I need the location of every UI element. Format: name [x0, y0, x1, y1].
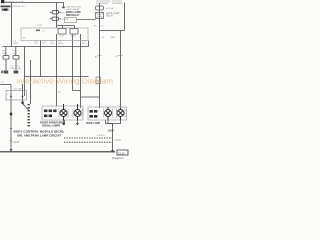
svg-text:Interactive Wiring Diagram: Interactive Wiring Diagram [16, 77, 113, 86]
fuse F4 [3, 56, 9, 60]
lamp L3 [105, 107, 112, 120]
switch S1 contacts [10, 96, 12, 98]
lamp bracket left [59, 109, 82, 118]
svg-text:GRY: GRY [17, 68, 22, 70]
svg-text:BLK: BLK [82, 43, 87, 45]
svg-text:UNDERHOOD FUSE: UNDERHOOD FUSE [5, 1, 25, 3]
wire [100, 30, 125, 32]
switch contact blob [21, 102, 23, 104]
relay body K4 [65, 18, 77, 23]
connector C2 [4, 71, 9, 74]
wire [0, 84, 11, 86]
connector stub blob [62, 7, 64, 9]
connector C4 [1, 71, 3, 74]
wire [56, 3, 58, 29]
connector C3 [14, 71, 19, 74]
lamp cluster left box [42, 106, 83, 120]
wire [24, 47, 26, 97]
dotted splice lines [64, 138, 112, 142]
svg-text:15A: 15A [13, 52, 17, 55]
svg-text:30 87: 30 87 [71, 36, 77, 38]
wire [80, 34, 82, 108]
svg-text:S112: S112 [37, 25, 43, 27]
svg-text:Diagram: Diagram [112, 156, 124, 160]
fuse F2 [52, 17, 59, 21]
svg-text:G201: G201 [115, 138, 122, 142]
wire lower bus [25, 76, 89, 78]
wire relay to coil [77, 19, 96, 21]
wire [22, 84, 24, 103]
ground G1 [62, 123, 65, 126]
svg-text:BRN: BRN [111, 37, 116, 39]
relay K2 [70, 29, 78, 35]
svg-text:RELAY: RELAY [106, 15, 114, 18]
wire right feed [124, 3, 126, 31]
connector diamond on BCM wire [9, 112, 12, 117]
wire [5, 47, 7, 70]
svg-text:ORN: ORN [10, 68, 15, 70]
svg-text:GRY: GRY [50, 43, 55, 45]
svg-text:C130: C130 [118, 151, 125, 155]
wire [40, 40, 42, 77]
fuse F5 [13, 56, 19, 60]
wire [30, 60, 32, 104]
wire [64, 120, 66, 125]
svg-text:10A: 10A [2, 52, 6, 55]
lamp cluster right box [88, 107, 127, 120]
relay coil K3 [96, 13, 104, 19]
svg-text:F8 15A: F8 15A [106, 7, 114, 10]
ground G2 [76, 123, 79, 126]
wire [88, 41, 90, 47]
ground tap G103 [10, 149, 13, 152]
wire lamp grounds [64, 120, 121, 126]
wire [73, 34, 81, 91]
ground G3 [111, 150, 114, 152]
wire stub [56, 3, 64, 7]
fuse F3 [96, 6, 104, 10]
wire [99, 3, 101, 108]
wire [106, 120, 113, 124]
block top-left [1, 0, 4, 3]
svg-text:BRN: BRN [58, 43, 63, 45]
svg-text:30 87: 30 87 [59, 36, 65, 38]
relay K1 [58, 29, 66, 35]
connector box right mid [96, 77, 101, 84]
svg-text:0.35 GRY: 0.35 GRY [13, 89, 23, 91]
wire relay pins [57, 26, 75, 29]
lamp L2 [74, 104, 81, 120]
svg-text:G107: G107 [108, 130, 115, 133]
hot-at-all-times hatch [96, 0, 122, 3]
svg-text:SIGNAL LAMPS: SIGNAL LAMPS [42, 124, 60, 127]
svg-text:ORN: ORN [13, 43, 18, 45]
wire [10, 85, 12, 153]
wire bottom border [0, 151, 115, 153]
wire [56, 34, 58, 106]
svg-text:0.8 BLK: 0.8 BLK [97, 135, 105, 137]
fuse block box B1 [21, 28, 88, 41]
wire [15, 47, 17, 70]
switch S1 box [6, 91, 27, 101]
svg-text:F23 10A: F23 10A [60, 12, 69, 15]
svg-text:DRL AND PARK LAMP CIRCUIT: DRL AND PARK LAMP CIRCUIT [17, 133, 61, 137]
bottom-right legend box [117, 150, 128, 155]
connector dashes under top row [36, 30, 40, 32]
wire switch lever [23, 104, 29, 111]
svg-text:G103: G103 [13, 140, 20, 144]
svg-text:DAYTIME RUN: DAYTIME RUN [66, 6, 81, 9]
switch ladder dots [28, 104, 30, 126]
lamp L4 [117, 108, 124, 120]
lamp bracket right [104, 109, 126, 118]
label HOT AT ALL TIMES [1, 6, 11, 8]
svg-text:FUSE BLOCK: FUSE BLOCK [12, 6, 25, 8]
wire top bus [3, 2, 56, 4]
wire [11, 3, 13, 47]
fuse F1 [52, 11, 59, 15]
pin labels [98, 55, 123, 57]
wire mid bus [3, 46, 89, 48]
wire [120, 31, 122, 109]
svg-text:F12 10A: F12 10A [60, 18, 69, 21]
lamp L1 [60, 104, 67, 120]
wire [112, 124, 114, 150]
wire jog [81, 96, 100, 98]
svg-text:PARK LAMP: PARK LAMP [86, 122, 100, 125]
